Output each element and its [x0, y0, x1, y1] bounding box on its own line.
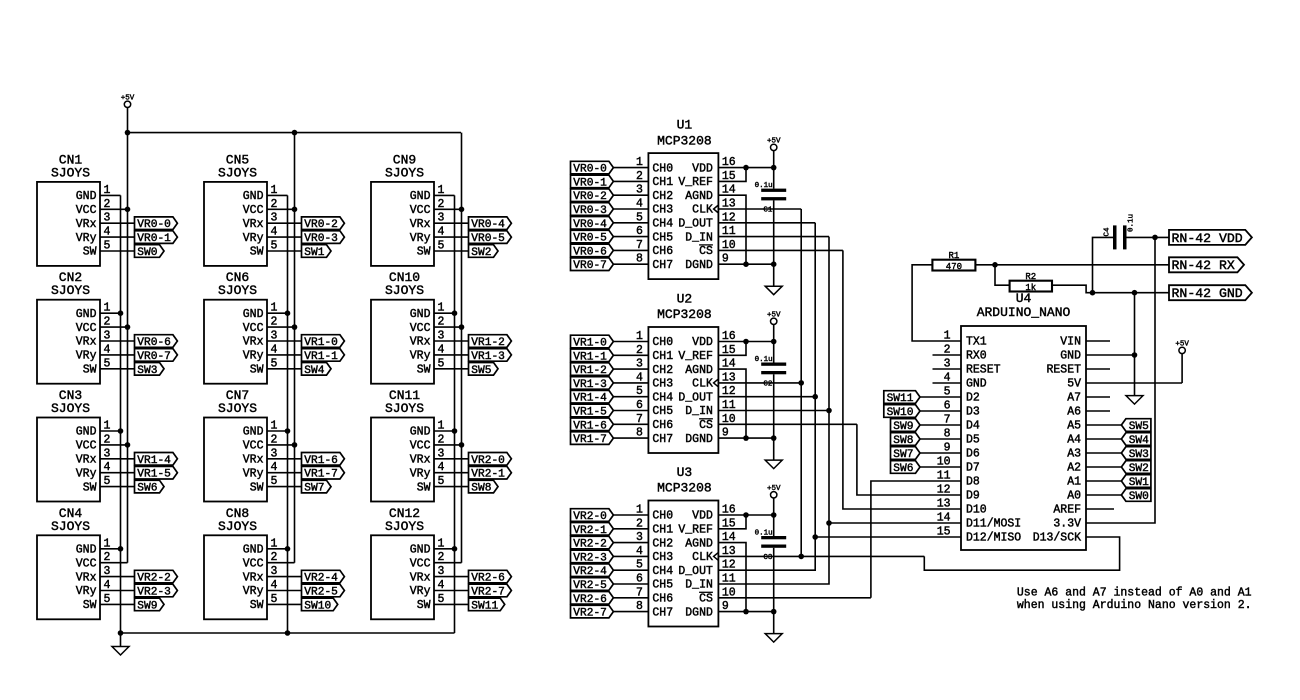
- svg-text:SJOYS: SJOYS: [385, 401, 424, 416]
- svg-text:AGND: AGND: [685, 364, 713, 377]
- svg-text:VR1-1: VR1-1: [573, 351, 607, 363]
- svg-text:SW: SW: [250, 364, 264, 377]
- svg-text:SW: SW: [250, 246, 264, 259]
- svg-text:SW: SW: [250, 481, 264, 494]
- svg-text:GND: GND: [243, 308, 264, 321]
- svg-text:VR2-5: VR2-5: [573, 580, 607, 592]
- svg-text:RN-42 GND: RN-42 GND: [1172, 286, 1243, 301]
- svg-text:VR0-1: VR0-1: [573, 177, 607, 189]
- svg-text:VR2-4: VR2-4: [573, 566, 607, 578]
- svg-text:VCC: VCC: [410, 322, 431, 335]
- svg-text:VR2-4: VR2-4: [304, 573, 338, 585]
- svg-text:A5: A5: [1067, 420, 1081, 433]
- svg-text:SW1: SW1: [304, 247, 324, 259]
- svg-text:VR0-0: VR0-0: [137, 219, 171, 231]
- svg-text:SW: SW: [417, 481, 431, 494]
- svg-text:MCP3208: MCP3208: [657, 307, 712, 322]
- svg-text:SJOYS: SJOYS: [51, 165, 90, 180]
- svg-text:CS: CS: [699, 245, 713, 258]
- svg-text:CH7: CH7: [652, 606, 673, 619]
- svg-text:SJOYS: SJOYS: [385, 165, 424, 180]
- svg-text:SW4: SW4: [304, 365, 324, 377]
- svg-text:SW11: SW11: [471, 600, 498, 612]
- svg-text:VRy: VRy: [243, 585, 264, 598]
- svg-text:U2: U2: [677, 292, 693, 307]
- svg-text:SW8: SW8: [893, 435, 913, 447]
- svg-text:SW: SW: [83, 599, 97, 612]
- svg-text:VDD: VDD: [692, 510, 713, 523]
- svg-text:SJOYS: SJOYS: [51, 401, 90, 416]
- svg-text:VR0-2: VR0-2: [573, 191, 607, 203]
- svg-text:VR0-5: VR0-5: [573, 233, 607, 245]
- svg-text:0.1u: 0.1u: [755, 529, 773, 537]
- svg-text:VDD: VDD: [692, 336, 713, 349]
- svg-text:DGND: DGND: [685, 433, 713, 446]
- svg-text:SW2: SW2: [1129, 463, 1149, 475]
- svg-text:VR2-3: VR2-3: [137, 587, 171, 599]
- svg-text:RX0: RX0: [966, 350, 987, 363]
- svg-text:D2: D2: [966, 392, 980, 405]
- svg-text:VR0-6: VR0-6: [573, 246, 607, 258]
- svg-text:VRy: VRy: [410, 350, 431, 363]
- svg-text:SW8: SW8: [471, 483, 491, 495]
- svg-text:VR2-7: VR2-7: [573, 608, 607, 620]
- svg-text:GND: GND: [410, 308, 431, 321]
- svg-text:CH6: CH6: [652, 245, 673, 258]
- svg-text:SW10: SW10: [887, 407, 914, 419]
- svg-text:CLK: CLK: [692, 204, 713, 217]
- svg-text:CH4: CH4: [652, 218, 673, 231]
- svg-text:SW7: SW7: [304, 483, 324, 495]
- svg-text:SW: SW: [417, 599, 431, 612]
- svg-text:VR1-6: VR1-6: [573, 420, 607, 432]
- svg-text:A7: A7: [1067, 392, 1081, 405]
- svg-text:D_IN: D_IN: [685, 405, 713, 418]
- svg-text:CH6: CH6: [652, 593, 673, 606]
- svg-text:GND: GND: [1060, 350, 1081, 363]
- svg-text:RN-42 VDD: RN-42 VDD: [1172, 231, 1243, 246]
- svg-text:GND: GND: [410, 426, 431, 439]
- svg-text:SW0: SW0: [1129, 491, 1149, 503]
- svg-text:GND: GND: [410, 544, 431, 557]
- svg-text:VR2-7: VR2-7: [471, 587, 505, 599]
- svg-text:V_REF: V_REF: [678, 176, 713, 189]
- svg-text:CH1: CH1: [652, 524, 673, 537]
- svg-text:VR1-7: VR1-7: [573, 434, 607, 446]
- svg-text:CH3: CH3: [652, 378, 673, 391]
- svg-text:+5V: +5V: [1175, 340, 1189, 348]
- svg-text:SJOYS: SJOYS: [51, 283, 90, 298]
- svg-text:VR2-5: VR2-5: [304, 587, 338, 599]
- svg-text:C1: C1: [763, 207, 773, 215]
- svg-text:AREF: AREF: [1053, 504, 1081, 517]
- svg-text:CLK: CLK: [692, 378, 713, 391]
- svg-text:SJOYS: SJOYS: [385, 283, 424, 298]
- svg-text:VCC: VCC: [243, 204, 264, 217]
- svg-text:SW0: SW0: [137, 247, 157, 259]
- svg-text:VR1-5: VR1-5: [573, 407, 607, 419]
- svg-text:CH1: CH1: [652, 176, 673, 189]
- svg-text:RN-42 RX: RN-42 RX: [1172, 258, 1235, 273]
- svg-text:CH5: CH5: [652, 231, 673, 244]
- svg-text:VRx: VRx: [243, 454, 264, 467]
- svg-text:SJOYS: SJOYS: [218, 519, 257, 534]
- svg-text:CH4: CH4: [652, 391, 673, 404]
- svg-text:1k: 1k: [1025, 283, 1036, 293]
- svg-text:VR1-7: VR1-7: [304, 469, 338, 481]
- svg-text:SW9: SW9: [893, 421, 913, 433]
- svg-text:VR1-6: VR1-6: [304, 455, 338, 467]
- svg-text:VR0-3: VR0-3: [304, 233, 338, 245]
- svg-text:0.1u: 0.1u: [1128, 214, 1136, 232]
- svg-text:3.3V: 3.3V: [1053, 518, 1081, 531]
- svg-text:D13/SCK: D13/SCK: [1033, 532, 1081, 545]
- svg-text:VCC: VCC: [76, 322, 97, 335]
- svg-text:VR2-1: VR2-1: [471, 469, 505, 481]
- svg-text:VCC: VCC: [76, 204, 97, 217]
- svg-text:A4: A4: [1067, 434, 1081, 447]
- svg-text:CS: CS: [699, 593, 713, 606]
- svg-text:CH2: CH2: [652, 364, 673, 377]
- svg-text:SW6: SW6: [137, 483, 157, 495]
- svg-text:A2: A2: [1067, 462, 1081, 475]
- svg-text:GND: GND: [243, 190, 264, 203]
- svg-text:GND: GND: [410, 190, 431, 203]
- svg-text:SJOYS: SJOYS: [218, 165, 257, 180]
- svg-text:C4: C4: [1104, 227, 1112, 237]
- svg-text:CH2: CH2: [652, 190, 673, 203]
- svg-text:VR0-0: VR0-0: [573, 164, 607, 176]
- svg-text:CH0: CH0: [652, 510, 673, 523]
- svg-text:D8: D8: [966, 476, 980, 489]
- svg-text:CH5: CH5: [652, 579, 673, 592]
- svg-text:SJOYS: SJOYS: [385, 519, 424, 534]
- svg-text:SW11: SW11: [887, 393, 914, 405]
- svg-text:MCP3208: MCP3208: [657, 133, 712, 148]
- svg-text:SJOYS: SJOYS: [218, 401, 257, 416]
- svg-text:VR2-2: VR2-2: [137, 573, 171, 585]
- svg-text:SW: SW: [83, 246, 97, 259]
- svg-text:VCC: VCC: [76, 440, 97, 453]
- svg-text:SJOYS: SJOYS: [51, 519, 90, 534]
- svg-text:VRx: VRx: [243, 336, 264, 349]
- svg-text:SW: SW: [250, 599, 264, 612]
- svg-text:VR1-2: VR1-2: [573, 365, 607, 377]
- svg-text:D9: D9: [966, 490, 980, 503]
- svg-text:CH2: CH2: [652, 537, 673, 550]
- svg-text:GND: GND: [76, 544, 97, 557]
- svg-text:VIN: VIN: [1060, 336, 1081, 349]
- svg-text:VCC: VCC: [243, 440, 264, 453]
- svg-text:D4: D4: [966, 420, 980, 433]
- svg-text:CH4: CH4: [652, 565, 673, 578]
- svg-text:VR1-0: VR1-0: [573, 338, 607, 350]
- svg-text:D_OUT: D_OUT: [678, 391, 713, 404]
- svg-text:VCC: VCC: [243, 557, 264, 570]
- svg-text:D7: D7: [966, 462, 980, 475]
- svg-text:DGND: DGND: [685, 606, 713, 619]
- svg-text:VR0-2: VR0-2: [304, 219, 338, 231]
- svg-text:SW5: SW5: [1129, 421, 1149, 433]
- svg-text:VRx: VRx: [76, 571, 97, 584]
- svg-text:VRy: VRy: [243, 232, 264, 245]
- svg-text:D10: D10: [966, 504, 987, 517]
- svg-text:GND: GND: [76, 190, 97, 203]
- svg-text:VR0-1: VR0-1: [137, 233, 171, 245]
- svg-text:CS: CS: [699, 419, 713, 432]
- svg-text:VDD: VDD: [692, 162, 713, 175]
- svg-text:+5V: +5V: [767, 137, 781, 145]
- svg-text:RESET: RESET: [1046, 364, 1081, 377]
- svg-text:+5V: +5V: [767, 311, 781, 319]
- svg-text:CH0: CH0: [652, 162, 673, 175]
- svg-text:D5: D5: [966, 434, 980, 447]
- svg-text:D6: D6: [966, 448, 980, 461]
- svg-text:D3: D3: [966, 406, 980, 419]
- svg-text:SW: SW: [83, 481, 97, 494]
- svg-text:VCC: VCC: [76, 557, 97, 570]
- svg-text:VCC: VCC: [243, 322, 264, 335]
- svg-text:SW6: SW6: [893, 463, 913, 475]
- svg-text:D12/MISO: D12/MISO: [966, 532, 1021, 545]
- svg-text:VRx: VRx: [410, 454, 431, 467]
- svg-text:VR1-1: VR1-1: [304, 351, 338, 363]
- svg-text:D_OUT: D_OUT: [678, 218, 713, 231]
- svg-text:U4: U4: [1016, 291, 1032, 306]
- svg-text:VRx: VRx: [410, 571, 431, 584]
- svg-text:C3: C3: [763, 554, 773, 562]
- svg-text:SW7: SW7: [893, 449, 913, 461]
- svg-text:SW2: SW2: [471, 247, 491, 259]
- svg-text:VR2-6: VR2-6: [573, 594, 607, 606]
- svg-text:VRy: VRy: [410, 585, 431, 598]
- svg-text:D_IN: D_IN: [685, 231, 713, 244]
- svg-text:U1: U1: [677, 118, 693, 133]
- svg-text:VR2-0: VR2-0: [471, 455, 505, 467]
- svg-text:SW3: SW3: [137, 365, 157, 377]
- svg-text:VR1-3: VR1-3: [573, 379, 607, 391]
- svg-text:VR0-3: VR0-3: [573, 205, 607, 217]
- svg-text:VCC: VCC: [410, 440, 431, 453]
- svg-text:VR1-0: VR1-0: [304, 337, 338, 349]
- svg-text:D_IN: D_IN: [685, 579, 713, 592]
- svg-text:SW3: SW3: [1129, 449, 1149, 461]
- svg-text:VR1-3: VR1-3: [471, 351, 505, 363]
- svg-text:A1: A1: [1067, 476, 1081, 489]
- svg-text:GND: GND: [966, 378, 987, 391]
- svg-text:VRy: VRy: [76, 467, 97, 480]
- svg-text:MCP3208: MCP3208: [657, 481, 712, 496]
- svg-text:VRy: VRy: [410, 467, 431, 480]
- svg-text:CH3: CH3: [652, 551, 673, 564]
- svg-text:VRy: VRy: [76, 350, 97, 363]
- svg-text:AGND: AGND: [685, 190, 713, 203]
- svg-text:VCC: VCC: [410, 557, 431, 570]
- svg-text:AGND: AGND: [685, 537, 713, 550]
- svg-text:VR2-6: VR2-6: [471, 573, 505, 585]
- svg-text:VRx: VRx: [410, 218, 431, 231]
- svg-text:V_REF: V_REF: [678, 524, 713, 537]
- svg-text:VCC: VCC: [410, 204, 431, 217]
- svg-text:VRy: VRy: [410, 232, 431, 245]
- svg-text:VR0-7: VR0-7: [137, 351, 171, 363]
- svg-text:VR1-5: VR1-5: [137, 469, 171, 481]
- svg-text:SW1: SW1: [1129, 477, 1149, 489]
- svg-text:D_OUT: D_OUT: [678, 565, 713, 578]
- svg-text:SW10: SW10: [304, 600, 331, 612]
- svg-text:GND: GND: [76, 426, 97, 439]
- svg-text:R2: R2: [1025, 272, 1036, 282]
- svg-text:CH6: CH6: [652, 419, 673, 432]
- svg-text:0.1u: 0.1u: [755, 356, 773, 364]
- svg-text:SJOYS: SJOYS: [218, 283, 257, 298]
- svg-text:VRx: VRx: [76, 218, 97, 231]
- svg-text:C2: C2: [763, 381, 772, 389]
- svg-text:+5V: +5V: [121, 94, 135, 102]
- svg-text:A0: A0: [1067, 490, 1081, 503]
- svg-text:V_REF: V_REF: [678, 350, 713, 363]
- svg-text:TX1: TX1: [966, 336, 987, 349]
- svg-text:VRy: VRy: [76, 585, 97, 598]
- svg-text:R1: R1: [948, 251, 959, 261]
- svg-text:GND: GND: [243, 544, 264, 557]
- svg-text:VRy: VRy: [76, 232, 97, 245]
- svg-text:VR2-0: VR2-0: [573, 511, 607, 523]
- svg-text:VR0-4: VR0-4: [471, 219, 505, 231]
- svg-text:470: 470: [946, 262, 962, 272]
- svg-text:VR0-4: VR0-4: [573, 219, 607, 231]
- svg-text:A6: A6: [1067, 406, 1081, 419]
- svg-text:SW: SW: [417, 246, 431, 259]
- svg-text:VR1-4: VR1-4: [573, 393, 607, 405]
- svg-text:VR2-2: VR2-2: [573, 539, 607, 551]
- svg-text:SW4: SW4: [1129, 435, 1149, 447]
- svg-text:VR2-3: VR2-3: [573, 552, 607, 564]
- svg-text:ARDUINO_NANO: ARDUINO_NANO: [977, 305, 1071, 320]
- svg-text:CH7: CH7: [652, 259, 673, 272]
- svg-text:VR1-4: VR1-4: [137, 455, 171, 467]
- svg-text:Use A6 and A7 instead of A0 an: Use A6 and A7 instead of A0 and A1: [1017, 586, 1252, 599]
- svg-text:VR0-5: VR0-5: [471, 233, 505, 245]
- svg-text:CH0: CH0: [652, 336, 673, 349]
- svg-text:0.1u: 0.1u: [755, 182, 773, 190]
- svg-text:VRx: VRx: [410, 336, 431, 349]
- svg-text:VR0-6: VR0-6: [137, 337, 171, 349]
- svg-text:SW: SW: [417, 364, 431, 377]
- svg-text:CLK: CLK: [692, 551, 713, 564]
- svg-text:CH3: CH3: [652, 204, 673, 217]
- svg-text:DGND: DGND: [685, 259, 713, 272]
- svg-text:VR1-2: VR1-2: [471, 337, 505, 349]
- svg-text:D11/MOSI: D11/MOSI: [966, 518, 1021, 531]
- svg-text:A3: A3: [1067, 448, 1081, 461]
- svg-text:SW9: SW9: [137, 600, 157, 612]
- svg-text:SW5: SW5: [471, 365, 491, 377]
- svg-text:VRy: VRy: [243, 467, 264, 480]
- svg-text:RESET: RESET: [966, 364, 1001, 377]
- svg-text:CH5: CH5: [652, 405, 673, 418]
- svg-text:SW: SW: [83, 364, 97, 377]
- svg-text:CH1: CH1: [652, 350, 673, 363]
- svg-text:when using Arduino Nano versio: when using Arduino Nano version 2.: [1017, 599, 1252, 612]
- svg-text:GND: GND: [243, 426, 264, 439]
- svg-text:VRy: VRy: [243, 350, 264, 363]
- svg-text:VRx: VRx: [243, 218, 264, 231]
- svg-text:U3: U3: [677, 465, 693, 480]
- svg-text:VRx: VRx: [76, 454, 97, 467]
- svg-text:VR0-7: VR0-7: [573, 260, 607, 272]
- svg-text:VR2-1: VR2-1: [573, 525, 607, 537]
- svg-text:VRx: VRx: [243, 571, 264, 584]
- svg-text:GND: GND: [76, 308, 97, 321]
- svg-text:CH7: CH7: [652, 433, 673, 446]
- svg-text:VRx: VRx: [76, 336, 97, 349]
- svg-text:5V: 5V: [1067, 378, 1081, 391]
- svg-text:+5V: +5V: [767, 485, 781, 493]
